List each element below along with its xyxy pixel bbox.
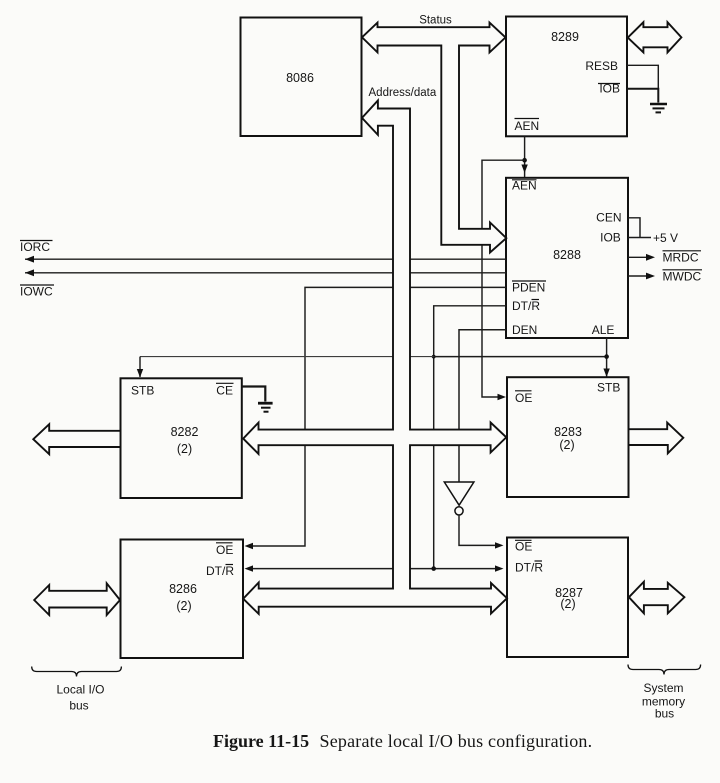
svg-text:+5 V: +5 V bbox=[653, 231, 678, 245]
svg-text:CE: CE bbox=[216, 384, 233, 398]
wire RESB (8289 pin to pulldown) bbox=[627, 65, 658, 88]
bus Address/data (arrow into 8086, vertical channel, latch bus and transceiver bus) bbox=[243, 101, 507, 614]
svg-text:STB: STB bbox=[597, 381, 620, 395]
svg-text:System: System bbox=[643, 681, 683, 695]
bus Status (8086-8289 double arrow with branch down into 8288) bbox=[362, 23, 506, 253]
svg-text:MWDC: MWDC bbox=[663, 270, 702, 284]
svg-text:8086: 8086 bbox=[286, 71, 314, 85]
wire AEN branch to 8283 OE bbox=[482, 160, 525, 400]
svg-text:ALE: ALE bbox=[592, 323, 615, 337]
svg-text:OE: OE bbox=[515, 391, 532, 405]
svg-text:(2): (2) bbox=[177, 442, 192, 456]
svg-text:bus: bus bbox=[655, 707, 674, 721]
wire AEN (8289 to 8288) bbox=[521, 136, 527, 177]
svg-text:DT/R: DT/R bbox=[206, 564, 234, 578]
svg-text:8283: 8283 bbox=[554, 425, 582, 439]
svg-text:8289: 8289 bbox=[551, 30, 579, 44]
bus 8289 right (double arrow) bbox=[628, 22, 682, 52]
brace System memory bus bbox=[628, 665, 701, 721]
svg-text:IOWC: IOWC bbox=[20, 285, 53, 299]
wire ALE (to STB of 8282 and 8283) bbox=[137, 338, 610, 378]
wire MRDC output bbox=[628, 254, 655, 261]
svg-text:Local I/O: Local I/O bbox=[56, 683, 104, 697]
svg-text:CEN: CEN bbox=[596, 211, 621, 225]
svg-text:(2): (2) bbox=[559, 438, 574, 452]
IC 8282 bbox=[121, 378, 242, 498]
IC 8086 bbox=[241, 18, 362, 137]
svg-text:IOB: IOB bbox=[600, 231, 621, 245]
svg-text:RESB: RESB bbox=[585, 59, 618, 73]
node DT/R junction bbox=[431, 566, 436, 571]
svg-text:OE: OE bbox=[515, 540, 532, 554]
node ALE/DTR crossing dot bbox=[432, 355, 436, 359]
wire DT/R (8288 to 8286 and 8287) bbox=[245, 306, 507, 572]
ground (8289 IOB) bbox=[650, 104, 667, 112]
IC 8287 bbox=[507, 538, 628, 658]
svg-text:PDEN: PDEN bbox=[512, 281, 545, 295]
IC 8288 bbox=[506, 178, 628, 338]
svg-text:IORC: IORC bbox=[20, 240, 50, 254]
ground (8282 CE) bbox=[258, 403, 273, 412]
net label IOWC bbox=[20, 285, 54, 299]
svg-text:8288: 8288 bbox=[553, 248, 581, 262]
node ALE junction bbox=[604, 354, 609, 359]
svg-text:Address/data: Address/data bbox=[369, 87, 437, 99]
brace Local I/O bus bbox=[32, 667, 122, 713]
svg-text:OE: OE bbox=[216, 543, 233, 557]
wire IOB (8289 pin to ground) bbox=[627, 89, 658, 103]
wire CEN of 8288 to +5V bbox=[628, 218, 640, 238]
net label MWDC bbox=[663, 270, 703, 284]
bus 8286 left (double arrow to local I/O bus) bbox=[34, 583, 120, 615]
wire IOWC bbox=[25, 269, 506, 276]
svg-text:(2): (2) bbox=[560, 597, 575, 611]
IC 8283 bbox=[507, 377, 629, 497]
bus 8282 left (arrow out to local I/O bus) bbox=[33, 424, 120, 454]
svg-text:DT/R: DT/R bbox=[512, 299, 540, 313]
IC 8289 bbox=[506, 17, 627, 137]
svg-text:8282: 8282 bbox=[171, 425, 199, 439]
svg-text:DEN: DEN bbox=[512, 323, 537, 337]
wire CE of 8282 to ground bbox=[242, 387, 265, 402]
wire IORC bbox=[25, 256, 506, 263]
wire IOB of 8288 to +5V bbox=[628, 237, 651, 239]
wire DEN (8288 to inverter) bbox=[459, 330, 506, 482]
svg-text:(2): (2) bbox=[176, 599, 191, 613]
inverter (DEN to 8287 OE) bbox=[444, 482, 503, 549]
svg-text:STB: STB bbox=[131, 384, 154, 398]
net label IORC bbox=[20, 240, 53, 254]
svg-text:MRDC: MRDC bbox=[663, 251, 699, 265]
node AEN junction bbox=[522, 158, 527, 163]
svg-text:AEN: AEN bbox=[512, 179, 537, 193]
wire MWDC output bbox=[628, 273, 655, 280]
svg-text:8286: 8286 bbox=[169, 582, 197, 596]
bus 8287 right (double arrow to system memory bus) bbox=[629, 582, 685, 614]
IC 8286 bbox=[121, 540, 244, 659]
svg-text:bus: bus bbox=[69, 699, 88, 713]
svg-text:AEN: AEN bbox=[515, 119, 540, 133]
svg-text:DT/R: DT/R bbox=[515, 561, 543, 575]
svg-text:Status: Status bbox=[419, 15, 452, 27]
svg-text:Figure 11-15Separate local I/O: Figure 11-15Separate local I/O bus confi… bbox=[213, 731, 592, 751]
wire PDEN (8288 to 8286 OE) bbox=[245, 287, 507, 549]
net label MRDC bbox=[663, 251, 702, 265]
bus 8283 right (arrow out to system bus) bbox=[629, 423, 684, 454]
